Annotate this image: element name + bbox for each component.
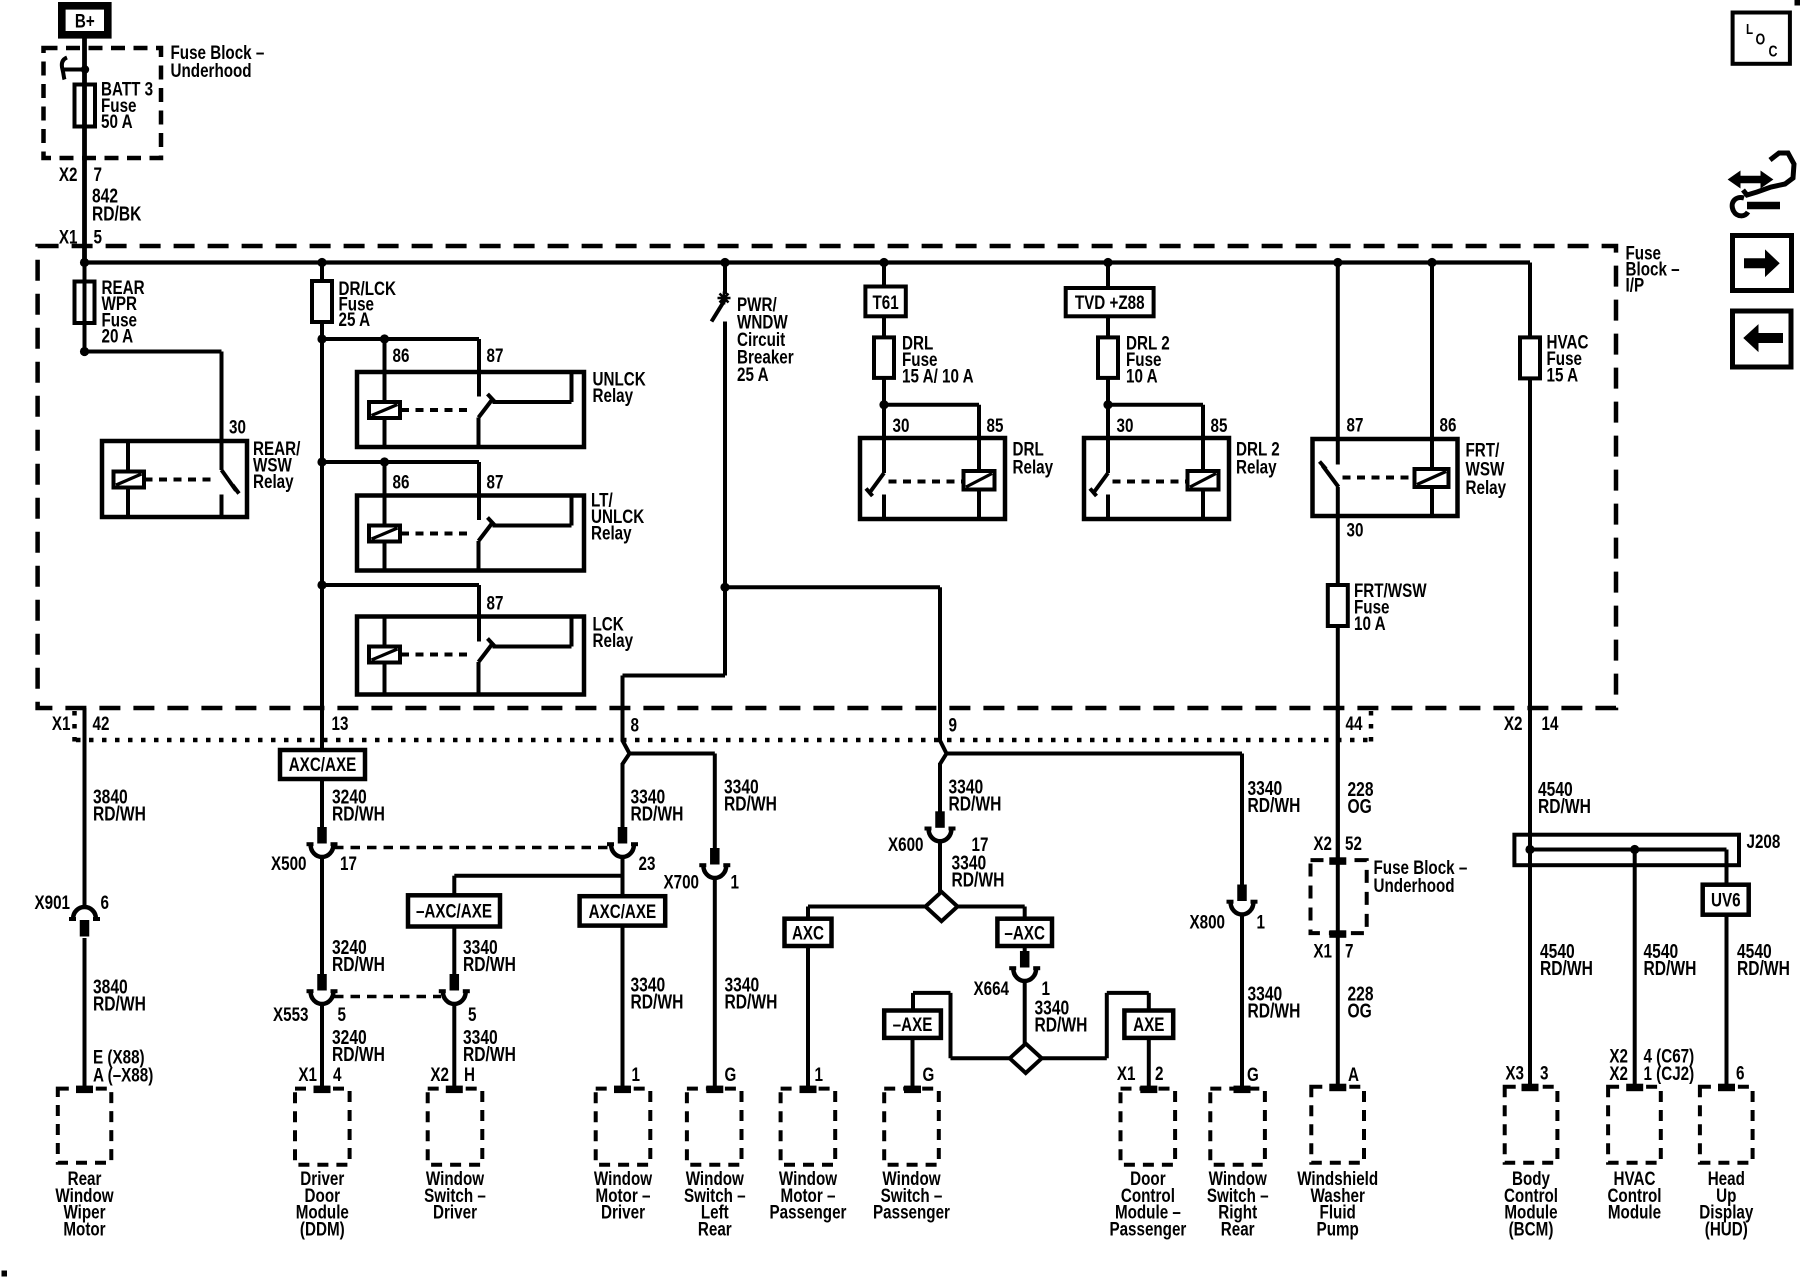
wire 3340 RD/WH terminal 8 drop <box>621 763 625 828</box>
Window Switch - Driver <box>446 1086 462 1093</box>
svg-text:86: 86 <box>1440 415 1457 437</box>
svg-text:14: 14 <box>1542 713 1559 735</box>
relay REAR/WSW <box>102 441 247 517</box>
svg-text:X553: X553 <box>273 1004 309 1026</box>
svg-text:X1: X1 <box>298 1064 317 1086</box>
prev page arrow box <box>1733 311 1792 367</box>
svg-text:87: 87 <box>1347 415 1364 437</box>
svg-text:X901: X901 <box>35 892 71 914</box>
junction AXE <box>1124 1011 1173 1038</box>
svg-text:Relay: Relay <box>591 523 632 545</box>
svg-text:C: C <box>1769 44 1778 61</box>
svg-text:J208: J208 <box>1747 831 1781 853</box>
svg-text:87: 87 <box>487 345 504 367</box>
svg-text:85: 85 <box>987 415 1004 437</box>
junction -AXC/AXE <box>454 874 622 878</box>
svg-text:1: 1 <box>632 1064 641 1086</box>
svg-text:Relay: Relay <box>593 385 634 407</box>
svg-text:30: 30 <box>1117 415 1134 437</box>
option UV6 <box>1703 885 1749 915</box>
page corner tick <box>1795 0 1800 5</box>
junction -AXC <box>997 919 1052 946</box>
svg-text:–AXC/AXE: –AXC/AXE <box>416 901 492 923</box>
wire to HUD 4540 RD/WH <box>1725 915 1729 1085</box>
svg-text:(HUD): (HUD) <box>1705 1218 1748 1240</box>
svg-text:1 (CJ2): 1 (CJ2) <box>1644 1063 1695 1085</box>
wire to terminal 8 <box>723 587 727 675</box>
battery clip <box>62 58 67 80</box>
wire <box>320 322 324 750</box>
svg-text:Underhood: Underhood <box>1374 875 1455 897</box>
wire <box>1106 378 1110 438</box>
svg-text:4: 4 <box>333 1064 342 1086</box>
svg-text:17: 17 <box>340 853 357 875</box>
wire to AXC <box>808 905 926 909</box>
wire 3340 RD/WH <box>713 878 717 1087</box>
svg-text:5: 5 <box>468 1004 477 1026</box>
main bus wire <box>85 260 1531 264</box>
connector X664 pin 1 <box>1023 946 1027 952</box>
svg-text:X3: X3 <box>1505 1063 1524 1085</box>
svg-text:44: 44 <box>1346 713 1363 735</box>
svg-text:X2: X2 <box>59 164 78 186</box>
svg-text:AXC/AXE: AXC/AXE <box>589 901 657 923</box>
svg-text:X500: X500 <box>271 853 307 875</box>
svg-text:X600: X600 <box>888 834 924 856</box>
fuse REAR WPR 20A <box>83 263 87 352</box>
svg-text:Module: Module <box>1608 1202 1661 1224</box>
svg-text:(DDM): (DDM) <box>300 1218 345 1240</box>
svg-text:Driver: Driver <box>601 1202 645 1224</box>
svg-text:RD/WH: RD/WH <box>93 804 146 826</box>
fuse HVAC 15A <box>1528 263 1532 338</box>
svg-text:13: 13 <box>332 713 349 735</box>
svg-text:RD/WH: RD/WH <box>332 804 385 826</box>
svg-text:G: G <box>1247 1064 1259 1086</box>
Window Switch - Passenger <box>905 1086 921 1093</box>
svg-text:20 A: 20 A <box>102 326 134 348</box>
junction node <box>720 583 729 592</box>
wire 3340 RD/WH <box>630 752 715 756</box>
svg-text:X664: X664 <box>974 978 1010 1000</box>
relay UNLCK <box>357 372 584 447</box>
svg-text:25 A: 25 A <box>339 309 371 331</box>
svg-text:2: 2 <box>1155 1063 1164 1085</box>
svg-text:(BCM): (BCM) <box>1509 1218 1554 1240</box>
vehicle loc icon <box>1740 176 1761 184</box>
wire to REAR/WSW relay pin 30 <box>80 347 89 356</box>
svg-text:30: 30 <box>229 417 246 439</box>
svg-text:OG: OG <box>1348 796 1372 818</box>
connector X500 pin 17 <box>318 828 327 844</box>
svg-text:RD/WH: RD/WH <box>1540 958 1593 980</box>
svg-text:Rear: Rear <box>698 1218 732 1240</box>
splice diamond <box>926 892 958 921</box>
svg-text:Passenger: Passenger <box>1109 1218 1186 1240</box>
HVAC Control Module <box>1627 1084 1643 1091</box>
wire 3240 RD/WH <box>320 1004 324 1087</box>
wire 3340 RD/WH terminal 9 drop <box>938 763 942 812</box>
relay DRL 2 <box>1103 400 1112 409</box>
svg-text:87: 87 <box>487 593 504 615</box>
svg-text:RD/WH: RD/WH <box>725 992 778 1014</box>
svg-text:RD/WH: RD/WH <box>631 992 684 1014</box>
svg-text:X700: X700 <box>664 872 700 894</box>
svg-text:X2: X2 <box>1504 713 1523 735</box>
svg-text:Relay: Relay <box>253 471 294 493</box>
svg-text:RD/WH: RD/WH <box>332 954 385 976</box>
junction AXC/AXE <box>280 750 365 779</box>
svg-text:30: 30 <box>1347 520 1364 542</box>
junction -AXE <box>884 1011 941 1038</box>
svg-text:A: A <box>1348 1064 1359 1086</box>
wire 3340 RD/WH <box>938 841 942 892</box>
Body Control Module BCM <box>1522 1084 1538 1091</box>
svg-text:9: 9 <box>949 715 958 737</box>
svg-text:X2: X2 <box>1609 1063 1628 1085</box>
svg-text:O: O <box>1756 32 1766 49</box>
wire 3340 RD/WH <box>452 927 456 975</box>
svg-text:23: 23 <box>639 853 656 875</box>
svg-text:85: 85 <box>1211 415 1228 437</box>
Window Switch - Left Rear <box>707 1086 723 1093</box>
svg-text:Passenger: Passenger <box>873 1202 950 1224</box>
svg-text:X1: X1 <box>52 713 71 735</box>
svg-text:RD/WH: RD/WH <box>1248 795 1301 817</box>
svg-text:AXC/AXE: AXC/AXE <box>289 754 357 776</box>
relay DRL <box>879 400 888 409</box>
svg-text:RD/WH: RD/WH <box>949 794 1002 816</box>
svg-text:H: H <box>464 1064 475 1086</box>
svg-text:RD/WH: RD/WH <box>1644 958 1697 980</box>
svg-text:Pump: Pump <box>1317 1218 1359 1240</box>
svg-text:Driver: Driver <box>433 1202 477 1224</box>
wire branch to LCK relay <box>322 583 479 587</box>
svg-text:87: 87 <box>487 472 504 494</box>
svg-text:–AXE: –AXE <box>893 1014 933 1036</box>
wire <box>1147 1038 1151 1087</box>
svg-text:G: G <box>923 1064 935 1086</box>
connector X553 pin 5 <box>318 975 327 991</box>
wire branch to LT/UNLCK relay <box>322 460 479 464</box>
svg-text:X1: X1 <box>1117 1063 1136 1085</box>
svg-text:UV6: UV6 <box>1711 890 1741 912</box>
wire <box>1336 626 1340 860</box>
Driver Door Module DDM <box>314 1086 330 1093</box>
Windshield Washer Fluid Pump <box>1330 1084 1346 1091</box>
wire 3840 RD/WH <box>83 938 87 1087</box>
next page arrow box <box>1733 236 1792 291</box>
svg-text:RD/WH: RD/WH <box>463 1044 516 1066</box>
svg-text:86: 86 <box>393 345 410 367</box>
svg-text:50 A: 50 A <box>101 111 133 133</box>
wire to terminal 9 <box>725 585 940 589</box>
svg-text:G: G <box>725 1064 737 1086</box>
svg-text:15 A: 15 A <box>1547 365 1579 387</box>
Fuse Block - Underhood box <box>1330 858 1346 865</box>
splice pack J208 <box>1514 835 1739 866</box>
svg-text:Relay: Relay <box>1013 457 1054 479</box>
svg-text:Rear: Rear <box>1221 1218 1255 1240</box>
fuse DRL 2 10A <box>1106 316 1110 337</box>
svg-text:RD/WH: RD/WH <box>1035 1015 1088 1037</box>
wire branch to UNLCK relay <box>322 337 479 341</box>
Rear Window Wiper Motor <box>77 1086 93 1093</box>
fuse BATT 3 50A <box>75 85 96 127</box>
wire to AXE <box>1042 1056 1107 1060</box>
svg-text:X1: X1 <box>1313 941 1332 963</box>
svg-text:X2: X2 <box>1313 833 1332 855</box>
svg-text:8: 8 <box>631 715 640 737</box>
svg-text:RD/WH: RD/WH <box>631 804 684 826</box>
wire 228 OG <box>1336 708 1340 860</box>
svg-text:1: 1 <box>1257 912 1266 934</box>
circuit breaker PWR/WNDW 25A <box>723 263 727 295</box>
wire to BCM 4540 RD/WH <box>1528 865 1532 1085</box>
svg-text:B+: B+ <box>75 11 95 33</box>
svg-text:AXE: AXE <box>1133 1014 1164 1036</box>
svg-text:10 A: 10 A <box>1126 366 1158 388</box>
svg-text:5: 5 <box>338 1004 347 1026</box>
fuse DRL 15A/10A <box>882 316 886 337</box>
splice diamond <box>1010 1044 1042 1073</box>
wire <box>806 946 810 1087</box>
inline connector dashed link X553 <box>334 995 441 999</box>
svg-text:7: 7 <box>1345 941 1354 963</box>
svg-text:25 A: 25 A <box>737 364 769 386</box>
wire 3340 RD/WH <box>452 1004 456 1087</box>
pin X1 7 <box>1330 931 1346 938</box>
svg-text:RD/WH: RD/WH <box>332 1044 385 1066</box>
svg-text:Relay: Relay <box>593 630 634 652</box>
svg-text:AXC: AXC <box>792 923 824 945</box>
page artifact dot <box>2 1271 7 1276</box>
svg-text:10 A: 10 A <box>1354 613 1386 635</box>
svg-text:RD/WH: RD/WH <box>93 994 146 1016</box>
B+ power symbol <box>62 6 108 35</box>
inline connector dashed link X500 <box>334 846 610 850</box>
wire <box>1528 378 1532 834</box>
svg-text:RD/WH: RD/WH <box>724 794 777 816</box>
svg-text:RD/WH: RD/WH <box>952 870 1005 892</box>
svg-text:T61: T61 <box>873 292 899 314</box>
svg-text:OG: OG <box>1348 1001 1372 1023</box>
Door Control Module - Passenger <box>1141 1086 1157 1093</box>
Head Up Display HUD <box>1719 1084 1735 1091</box>
wire DR/LCK feed <box>320 263 324 282</box>
svg-text:30: 30 <box>893 415 910 437</box>
junction AXC/AXE <box>621 857 625 896</box>
wire <box>911 1038 915 1087</box>
svg-text:5: 5 <box>94 227 103 249</box>
wire to -AXE <box>951 1056 1010 1060</box>
connector X901 pin 6 <box>73 907 96 919</box>
svg-text:52: 52 <box>1345 833 1362 855</box>
svg-text:RD/WH: RD/WH <box>1248 1001 1301 1023</box>
svg-text:1: 1 <box>731 872 740 894</box>
svg-text:7: 7 <box>94 164 103 186</box>
wire 228 OG <box>1336 933 1340 1085</box>
connector X553 pin 5 <box>450 975 459 991</box>
module TVD +Z88 <box>1106 263 1110 289</box>
svg-text:6: 6 <box>101 892 110 914</box>
svg-text:86: 86 <box>393 472 410 494</box>
wire to -AXC <box>958 905 1025 909</box>
wire 3340 RD/WH <box>621 926 625 1087</box>
svg-text:L: L <box>1746 21 1753 38</box>
svg-text:RD/BK: RD/BK <box>92 204 142 226</box>
connector X600 pin 17 <box>936 812 945 828</box>
relay LT/UNLCK <box>357 496 584 571</box>
wire 3240 RD/WH <box>320 857 324 975</box>
svg-text:Passenger: Passenger <box>770 1202 847 1224</box>
svg-text:15 A/ 10 A: 15 A/ 10 A <box>902 366 974 388</box>
wire to HVAC module 4540 RD/WH <box>1633 850 1637 1086</box>
relay FRT/WSW <box>1336 263 1340 465</box>
svg-text:Motor: Motor <box>63 1218 106 1240</box>
svg-text:RD/WH: RD/WH <box>463 954 516 976</box>
wire 3340 RD/WH <box>1240 915 1244 1088</box>
Window Motor - Passenger <box>800 1086 816 1093</box>
wire 4540 RD/WH <box>1528 708 1532 835</box>
wire 3240 RD/WH <box>320 779 324 828</box>
svg-text:1: 1 <box>815 1064 824 1086</box>
fuse DR/LCK 25A <box>312 281 332 322</box>
wire 3340 RD/WH <box>947 752 1243 756</box>
connector X700 pin 1 <box>711 849 720 865</box>
wire 3840 RD/WH <box>83 708 87 907</box>
svg-text:Relay: Relay <box>1466 477 1507 499</box>
Fuse Block - Underhood box <box>44 48 162 158</box>
svg-text:A (–X88): A (–X88) <box>93 1065 153 1087</box>
wire 3340 RD/WH <box>1023 981 1027 1044</box>
svg-text:X2: X2 <box>430 1064 449 1086</box>
wire <box>882 378 886 438</box>
svg-text:6: 6 <box>1736 1063 1745 1085</box>
svg-text:RD/WH: RD/WH <box>1538 796 1591 818</box>
svg-text:X800: X800 <box>1190 912 1226 934</box>
LOC box <box>1733 13 1790 64</box>
Window Motor - Driver <box>615 1086 631 1093</box>
wire <box>82 39 87 263</box>
fuse FRT/WSW 10A <box>1328 585 1348 626</box>
svg-text:RD/WH: RD/WH <box>1737 958 1790 980</box>
junction AXC <box>785 919 832 946</box>
connector X800 pin 1 <box>1238 885 1247 901</box>
Window Switch - Right Rear <box>1234 1086 1250 1093</box>
svg-text:Relay: Relay <box>1236 457 1277 479</box>
connector X500 pin 23 <box>618 828 627 844</box>
svg-text:TVD +Z88: TVD +Z88 <box>1075 292 1145 314</box>
module T61 <box>882 263 886 287</box>
relay LCK <box>357 617 584 695</box>
svg-text:42: 42 <box>93 713 110 735</box>
svg-text:3: 3 <box>1540 1063 1549 1085</box>
svg-text:–AXC: –AXC <box>1004 923 1045 945</box>
svg-text:I/P: I/P <box>1626 275 1645 297</box>
svg-text:Underhood: Underhood <box>171 60 252 82</box>
Fuse Block - I/P dashed box <box>38 246 1616 708</box>
